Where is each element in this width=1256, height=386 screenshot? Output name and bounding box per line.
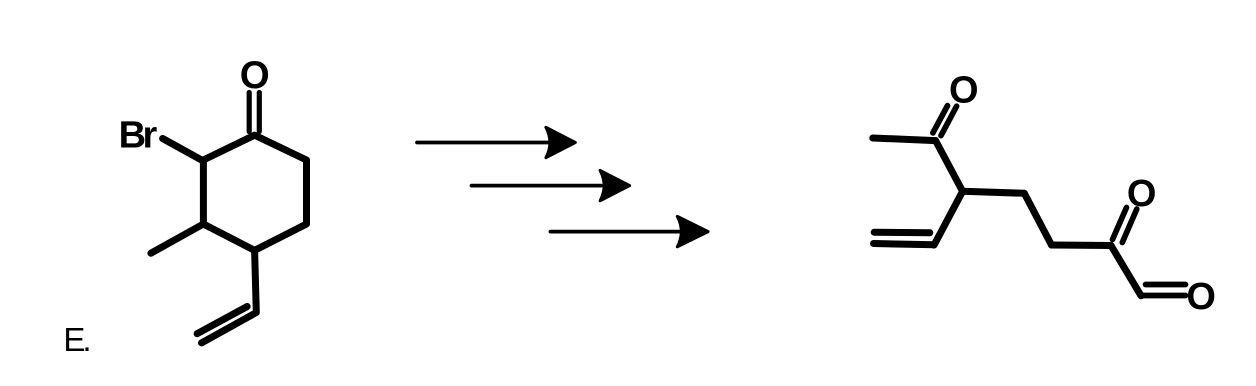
svg-text:O: O — [240, 54, 270, 97]
right molecule: bond acetylC-CH — [936, 141, 963, 192]
svg-text:O: O — [1186, 276, 1216, 318]
right molecule: bond CH-CH2a — [963, 191, 1025, 193]
right molecule: bond ketoC-CHOC — [1111, 246, 1141, 296]
arrow 1 head — [546, 127, 575, 157]
right molecule: keto C=O double bond lines — [1113, 208, 1127, 240]
svg-text:O: O — [949, 70, 979, 112]
right molecule: acetyl methyl bond — [873, 138, 936, 141]
left molecule: bond C2-Br — [163, 139, 204, 162]
svg-text:Br: Br — [119, 115, 158, 157]
svg-text:O: O — [1127, 173, 1157, 215]
arrow 3 shaft — [550, 230, 679, 234]
left molecule: vinyl C=C inner line — [197, 307, 247, 334]
arrow 3 head — [677, 216, 708, 246]
right molecule: aldehyde C=O lower line — [1143, 293, 1186, 299]
left molecule: cyclohexanone ring — [203, 135, 306, 250]
right molecule: aldehyde C=O upper line — [1146, 282, 1186, 288]
left molecule: methyl bond on C3 — [151, 224, 204, 253]
left molecule: C1=O double bond lines — [247, 93, 252, 132]
arrow 2 head — [600, 170, 630, 200]
right molecule: vinyl C=C inner line — [874, 229, 930, 237]
svg-text:E.: E. — [63, 321, 89, 358]
right molecule: bond CH2a-CH2b — [1024, 193, 1051, 245]
arrow 1 shaft — [417, 141, 548, 145]
right molecule: acetyl C=O double bond lines — [933, 106, 948, 133]
left molecule: vinyl stem C4-CH — [202, 250, 257, 343]
right molecule: bond CH2b-ketoC — [1052, 242, 1112, 250]
arrow 2 shaft — [472, 184, 602, 188]
right molecule: vinyl C=C main line — [874, 244, 935, 245]
right molecule: bond CH-vinylC — [934, 191, 963, 245]
